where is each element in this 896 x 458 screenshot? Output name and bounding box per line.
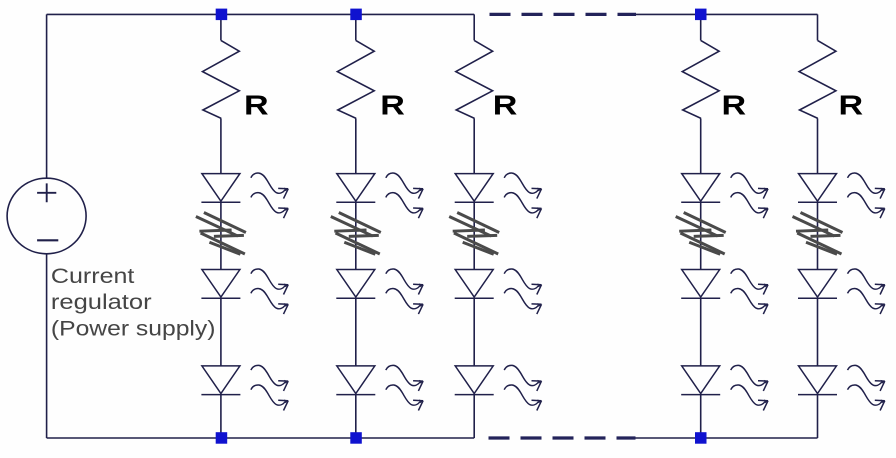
- wire: bottom rail dashed continuation: [489, 436, 636, 439]
- wire: LED D13 to bottom rail: [220, 395, 222, 438]
- LED D21 with light arrows: [336, 173, 423, 218]
- svg-text:R: R: [839, 89, 864, 120]
- wire: resistor R5 to LED D51: [817, 118, 819, 173]
- branch 1: [196, 14, 289, 438]
- wire: LED D33 to bottom rail: [473, 395, 475, 438]
- wire: LED D32 to LED D33: [473, 298, 475, 366]
- wire: LED D51 to LED D52: [817, 202, 819, 269]
- LED D41 with light arrows: [681, 173, 768, 218]
- svg-text:R: R: [493, 89, 518, 120]
- resistor R5: [799, 40, 836, 118]
- branch 3: [449, 14, 542, 438]
- wire: bottom rail right solid segment: [636, 437, 818, 439]
- wire: top rail dashed continuation: [490, 13, 637, 16]
- LED D22 with light arrows: [336, 269, 423, 314]
- svg-text:regulator: regulator: [51, 291, 152, 314]
- LED D53 with light arrows: [798, 365, 885, 410]
- wire: LED D11 to LED D12: [220, 202, 222, 269]
- branches: [196, 14, 885, 438]
- wire: resistor R4 to LED D41: [700, 118, 702, 173]
- wire: left rail below current source: [46, 255, 48, 439]
- wire: branch 2 top rail to resistor R2: [355, 14, 357, 40]
- wire: LED D31 to LED D32: [473, 202, 475, 269]
- break symbol: omitted LEDs in string 3: [449, 213, 499, 255]
- wire: branch 3 top rail to resistor R3: [473, 14, 475, 40]
- break symbol: omitted LEDs in string 5: [793, 213, 843, 255]
- LED D31 with light arrows: [455, 173, 542, 218]
- branch 4: [676, 14, 769, 438]
- break symbol: omitted LEDs in string 1: [196, 213, 246, 255]
- wire: resistor R1 to LED D11: [220, 118, 222, 173]
- LED D52 with light arrows: [798, 269, 885, 314]
- wire: LED D22 to LED D23: [355, 298, 357, 366]
- LED D12 with light arrows: [201, 269, 288, 314]
- wire: branch 4 top rail to resistor R4: [700, 14, 702, 40]
- wire: left rail above current source: [46, 14, 48, 177]
- LED D43 with light arrows: [681, 365, 768, 410]
- wire: LED D21 to LED D22: [355, 202, 357, 269]
- svg-text:R: R: [244, 89, 269, 120]
- resistor R2: [337, 40, 374, 118]
- svg-text:R: R: [380, 89, 405, 120]
- resistor R3: [456, 40, 493, 118]
- resistor R4: [682, 40, 719, 118]
- LED D42 with light arrows: [681, 269, 768, 314]
- branch 2: [331, 14, 424, 438]
- labels: R values: [244, 89, 863, 120]
- svg-text:Current: Current: [51, 265, 135, 288]
- LED D23 with light arrows: [336, 365, 423, 410]
- LED D51 with light arrows: [798, 173, 885, 218]
- LED D33 with light arrows: [455, 365, 542, 410]
- wire: LED D41 to LED D42: [700, 202, 702, 269]
- wire: top rail right solid segment: [636, 13, 818, 15]
- junction: bottom rail / branch 4: [695, 432, 707, 444]
- junction: bottom rail / branch 2: [350, 432, 362, 444]
- break symbol: omitted LEDs in string 4: [676, 213, 726, 255]
- wire: branch 5 top rail to resistor R5: [817, 14, 819, 40]
- wire: LED D12 to LED D13: [220, 298, 222, 366]
- wire: resistor R3 to LED D31: [473, 118, 475, 173]
- label: Current regulator (Power supply): [51, 265, 216, 340]
- resistor R1: [203, 40, 240, 118]
- wire: LED D43 to bottom rail: [700, 395, 702, 438]
- wire: bottom rail left solid segment: [47, 437, 475, 439]
- LED D11 with light arrows: [201, 173, 288, 218]
- junction: top rail / branch 2: [350, 9, 362, 21]
- svg-text:(Power supply): (Power supply): [51, 318, 216, 341]
- wire: branch 1 top rail to resistor R1: [220, 14, 222, 40]
- wire: LED D53 to bottom rail: [817, 395, 819, 438]
- junction: top rail / branch 1: [216, 9, 228, 21]
- junction squares: [216, 9, 707, 444]
- wire: LED D52 to LED D53: [817, 298, 819, 366]
- LED D32 with light arrows: [455, 269, 542, 314]
- current source V1: [7, 178, 86, 254]
- wire: LED D42 to LED D43: [700, 298, 702, 366]
- break symbol: omitted LEDs in string 2: [331, 213, 381, 255]
- wire: resistor R2 to LED D21: [355, 118, 357, 173]
- branch 5: [793, 14, 886, 438]
- junction: top rail / branch 4: [695, 9, 707, 21]
- wire: LED D23 to bottom rail: [355, 395, 357, 438]
- LED D13 with light arrows: [201, 365, 288, 410]
- junction: bottom rail / branch 1: [216, 432, 228, 444]
- wire: top rail left solid segment: [47, 13, 475, 15]
- svg-text:R: R: [722, 89, 747, 120]
